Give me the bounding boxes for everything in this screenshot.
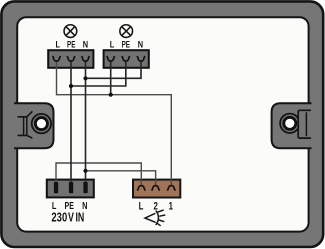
- svg-text:IN: IN: [75, 211, 84, 225]
- svg-text:PE: PE: [65, 199, 74, 211]
- svg-text:N: N: [83, 39, 88, 50]
- svg-text:L: L: [52, 200, 57, 211]
- svg-text:1: 1: [169, 199, 173, 212]
- svg-text:N: N: [82, 200, 87, 211]
- svg-text:PE: PE: [122, 39, 131, 50]
- svg-text:L: L: [139, 199, 144, 212]
- svg-text:L: L: [110, 39, 115, 50]
- svg-text:230: 230: [51, 211, 67, 225]
- svg-text:V: V: [68, 211, 74, 225]
- svg-text:PE: PE: [67, 39, 76, 50]
- svg-text:2: 2: [153, 199, 157, 212]
- svg-text:L: L: [55, 39, 60, 50]
- svg-text:N: N: [138, 39, 143, 50]
